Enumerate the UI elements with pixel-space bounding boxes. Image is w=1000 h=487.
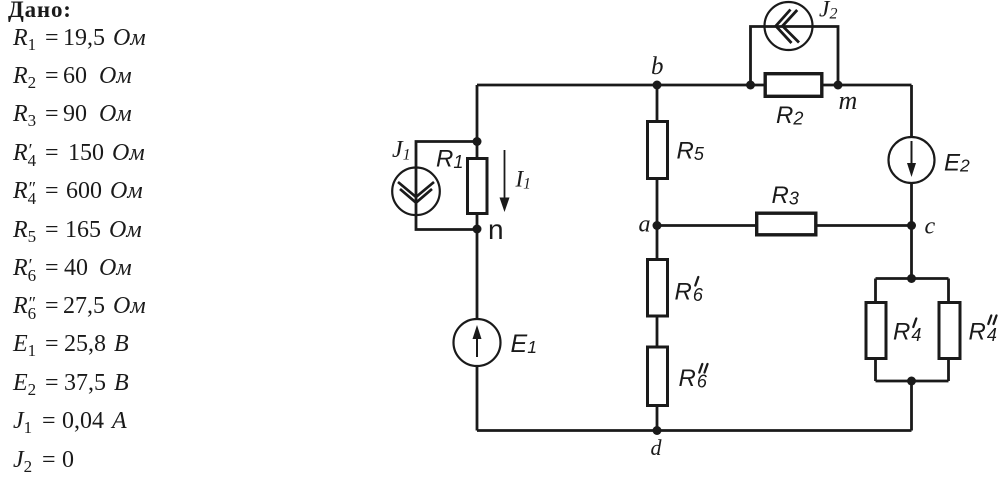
svg-text:E1: E1 [511, 330, 537, 358]
svg-text:m: m [839, 86, 858, 115]
svg-text:R6: R6 [675, 279, 704, 306]
svg-text:b: b [651, 53, 664, 80]
svg-text:J1: J1 [392, 137, 411, 164]
svg-text:R1: R1 [436, 146, 463, 173]
svg-text:R5: R5 [677, 138, 705, 165]
svg-text:n: n [488, 214, 504, 245]
svg-text:J2: J2 [819, 0, 837, 23]
svg-text:I1: I1 [515, 167, 531, 193]
svg-text:d: d [651, 435, 663, 460]
svg-text:R4: R4 [893, 319, 921, 346]
svg-text:R6: R6 [679, 365, 708, 392]
svg-text:E2: E2 [944, 150, 970, 177]
svg-text:R2: R2 [776, 102, 803, 129]
svg-text:a: a [639, 212, 651, 238]
svg-text:R3: R3 [772, 182, 799, 209]
svg-text:R4: R4 [969, 319, 997, 346]
svg-text:c: c [925, 214, 936, 240]
